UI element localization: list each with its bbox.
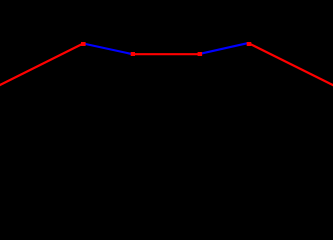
- node marker peak right: [247, 42, 252, 46]
- wire red flat middle segment: [133, 53, 200, 55]
- node marker valley right: [198, 52, 203, 56]
- wire red falling segment right: [249, 43, 333, 85]
- wire blue falling segment left: [83, 44, 132, 55]
- node marker valley left: [131, 52, 135, 56]
- node marker peak left: [81, 42, 86, 46]
- wire red rising segment left: [0, 44, 83, 86]
- wire blue rising segment right: [200, 43, 249, 54]
